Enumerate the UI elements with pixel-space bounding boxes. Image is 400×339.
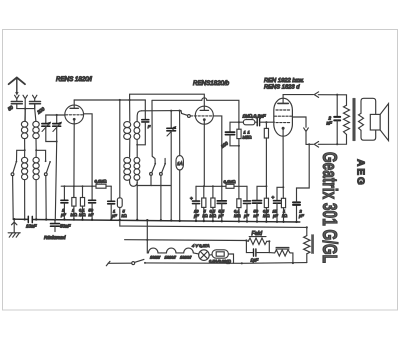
svg-text:+: + [272, 195, 275, 200]
svg-text:0,1MΩ: 0,1MΩ [95, 179, 107, 184]
svg-text:µF: µF [299, 213, 304, 218]
output transformer secondary loop [359, 98, 376, 140]
antenna capacitor 50 [11, 102, 22, 109]
antenna capacitor 200 [30, 102, 41, 109]
resistor 0,1MOhm (detector load) [237, 139, 241, 222]
antenna connector fork 2 (middle) [23, 95, 27, 108]
bus junction dots [13, 218, 298, 223]
capacitor 100 (detector) [225, 132, 240, 147]
resistor 1MOhm (detector, upper) [237, 122, 241, 138]
svg-text:µF: µF [244, 213, 249, 218]
tube V1 RENS1820/i [65, 100, 84, 124]
output transformer core [353, 99, 355, 141]
wire L2 bottom jog to switch S2 [35, 139, 46, 162]
svg-text:nF: nF [254, 213, 259, 218]
rail A (anode supply V1) [74, 99, 145, 101]
svg-text:4 V 0,27A: 4 V 0,27A [192, 243, 210, 248]
capacitor 1uF (after 0,1MOhm) [244, 186, 251, 221]
svg-text:MΩ: MΩ [234, 213, 240, 218]
svg-text:1820/f: 1820/f [180, 255, 192, 260]
capacitor 1uF (across field coil) [246, 241, 269, 257]
trimmer capacitor F [137, 100, 149, 145]
resistor 1MOhm coupling (oval) [239, 120, 256, 125]
capacitor 0,2uF coupling [257, 119, 274, 126]
filament 1820f a [162, 248, 180, 253]
fuse (heater circuit) [212, 250, 234, 263]
field coil Feld [241, 237, 271, 265]
capacitor 15uF electrolytic (cathode V3) [272, 195, 281, 222]
svg-text:MΩ: MΩ [245, 135, 251, 140]
resistor 0,1MOhm horizontal (in sub-rail 2) [226, 184, 234, 188]
capacitor 2nF (across primary) [334, 95, 340, 145]
switch S2 (wave band, right) [44, 161, 51, 220]
svg-text:REN 1922 bzw.: REN 1922 bzw. [264, 78, 304, 84]
variable capacitor C1 (tuning, left gang) [42, 115, 57, 142]
coil L1 antenna primary [21, 109, 27, 139]
svg-text:MΩ: MΩ [210, 213, 216, 218]
filament 1922f [148, 248, 161, 253]
capacitor 1uF (screen decoupling) [108, 186, 115, 220]
wire L1 bottom jog to switch S1 [17, 139, 26, 161]
svg-text:1922f: 1922f [150, 255, 161, 260]
svg-text:Feld: Feld [252, 231, 263, 237]
svg-text:µF: µF [194, 213, 199, 218]
variable capacitor C2 (tuning, right gang) [53, 115, 62, 220]
bus (chassis line) [13, 219, 300, 222]
svg-text:RENS1820/b: RENS1820/b [193, 80, 230, 87]
capacitor 50nF Rueckwand [51, 219, 60, 232]
wire speaker return line [306, 135, 347, 148]
choke winding (smoothing) [269, 247, 294, 264]
capacitor 10nF (series in bus) [28, 216, 32, 222]
switch S5 (pickup) at V2 grid [181, 111, 190, 118]
mains switch [106, 259, 242, 265]
resistor 0,1MOhm horizontal [96, 184, 106, 188]
svg-text:RENS 1820/i: RENS 1820/i [56, 76, 92, 83]
wire switch return line [137, 175, 171, 185]
svg-text:MΩ: MΩ [263, 213, 269, 218]
coil L4 lower secondary [33, 150, 39, 220]
coil L2 antenna secondary [33, 104, 39, 139]
resistor 1MOhm grid leak V3 [264, 122, 268, 187]
svg-text:kΩ: kΩ [203, 213, 208, 218]
svg-text:1820/f: 1820/f [165, 255, 177, 260]
line heater supply (below bus) [120, 220, 308, 229]
svg-text:Geatrix 301 G/GL: Geatrix 301 G/GL [318, 152, 340, 263]
svg-text:MΩ: MΩ [71, 212, 77, 217]
coil L6 IF1 secondary [134, 111, 142, 145]
wire V1 cathode down [73, 124, 75, 198]
svg-text:50nF: 50nF [60, 224, 72, 229]
output transformer primary winding [344, 105, 350, 134]
tube V2 RENS1820/b [191, 106, 214, 186]
bottom return line (Feld network) [242, 262, 307, 265]
switch S1 (wave band, left) [11, 161, 17, 219]
wire IF2 bottom U link [130, 183, 138, 220]
svg-text:AEG: AEG [354, 159, 365, 187]
svg-text:nF: nF [327, 121, 334, 126]
wire antenna input node [17, 108, 35, 121]
tube V3 REN1922 output [274, 95, 293, 137]
switch S3 (IF, left) [150, 157, 157, 176]
ground [8, 219, 20, 237]
wire line to pickup switch [142, 110, 182, 112]
sub-rail 1 (V1 cathode/screen network) [61, 185, 111, 187]
coil L8 IF2 secondary [134, 144, 140, 183]
resistor 1kOhm (cathode V3) [281, 198, 285, 222]
switch S4 (IF, right) [160, 159, 167, 221]
svg-text:1MΩ,0,2µF: 1MΩ,0,2µF [243, 114, 267, 119]
capacitor 10uF electrolytic [190, 186, 200, 221]
wire V2 right to screen divider [213, 116, 222, 186]
heater chain start [147, 240, 148, 253]
dropper resistor winding (vertical) [304, 227, 314, 262]
svg-text:kΩ: kΩ [282, 213, 287, 218]
svg-text:µF: µF [61, 212, 66, 217]
coil L7 IF2 primary [124, 157, 131, 182]
antenna connector fork 1 [15, 95, 19, 101]
resistor 0,5MOhm (V3 grid) [264, 186, 268, 221]
resistor 1MOhm (V1) [72, 186, 76, 219]
resistor 0,1MOhm (V1 screen) [80, 186, 84, 220]
svg-text:µF: µF [112, 213, 117, 218]
svg-text:kΩ: kΩ [122, 213, 127, 218]
svg-text:F: F [148, 124, 151, 129]
filament 1820f b [179, 248, 199, 254]
svg-text:200: 200 [35, 106, 45, 115]
antenna connector fork 3 [33, 95, 37, 101]
svg-text:Rückwand: Rückwand [44, 235, 66, 240]
svg-text:nF: nF [89, 212, 94, 217]
svg-text:MΩ: MΩ [79, 212, 85, 217]
wire V3 side contact to speaker return [293, 117, 309, 144]
sub-rail 2 (V2 networks) [196, 185, 247, 187]
grid rail of V1 [46, 114, 65, 116]
capacitor 50nF (V1 screen) [89, 186, 96, 220]
coil L5 IF1 primary [124, 100, 131, 157]
svg-text:1µF: 1µF [251, 258, 259, 263]
svg-text:10nF: 10nF [26, 224, 38, 229]
variable capacitor C3 (regen) [167, 111, 176, 221]
svg-text:RENS 1823 d: RENS 1823 d [264, 85, 300, 91]
svg-text:µF: µF [273, 213, 278, 218]
speaker [370, 104, 388, 141]
detector node [230, 121, 240, 132]
svg-text:50: 50 [7, 104, 14, 111]
fuse 1A [176, 111, 183, 221]
capacitor 1uF (V1 cathode) [61, 186, 68, 219]
lamp (dial light) [199, 250, 212, 261]
rail C (to detector) [152, 98, 239, 157]
resistor 5kOhm (screen feed) [117, 100, 122, 220]
capacitor 50nF (V3 grid) [253, 186, 267, 221]
svg-text:0,1MΩ: 0,1MΩ [224, 179, 236, 184]
wire V3 anode line to output transformer [283, 92, 346, 105]
wire V1 screen to right [84, 114, 93, 186]
antenna [9, 78, 25, 96]
rail B (upper, to V2 anode) [130, 94, 205, 106]
resistor 0,5MOhm [211, 186, 215, 221]
coil L3 lower primary [22, 150, 28, 220]
svg-text:1A: 1A [177, 161, 182, 166]
capacitor 50nF (V2) [217, 186, 226, 221]
svg-text:+: + [190, 196, 193, 201]
resistor 5kOhm (V2 cathode) [202, 186, 206, 221]
line heater chain feed [125, 220, 248, 241]
capacitor 2uF (B+ filter) [293, 143, 310, 222]
wire V3 cathode network [277, 136, 284, 200]
svg-text:µF: µF [219, 213, 224, 218]
